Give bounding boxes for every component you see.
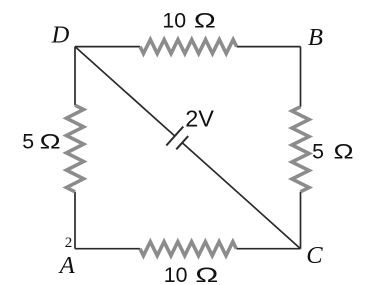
svg-text:5: 5: [312, 140, 324, 164]
svg-text:2: 2: [65, 235, 73, 251]
svg-text:Ω: Ω: [40, 130, 61, 154]
svg-text:10: 10: [164, 263, 188, 285]
svg-text:D: D: [51, 21, 70, 48]
svg-text:A: A: [58, 252, 76, 279]
svg-text:Ω: Ω: [334, 140, 354, 164]
svg-text:2V: 2V: [185, 105, 214, 131]
svg-text:C: C: [306, 242, 323, 269]
svg-text:5: 5: [22, 130, 34, 154]
svg-text:10: 10: [162, 8, 186, 32]
svg-text:B: B: [308, 24, 323, 51]
svg-text:Ω: Ω: [194, 9, 216, 32]
svg-text:Ω: Ω: [195, 263, 218, 285]
